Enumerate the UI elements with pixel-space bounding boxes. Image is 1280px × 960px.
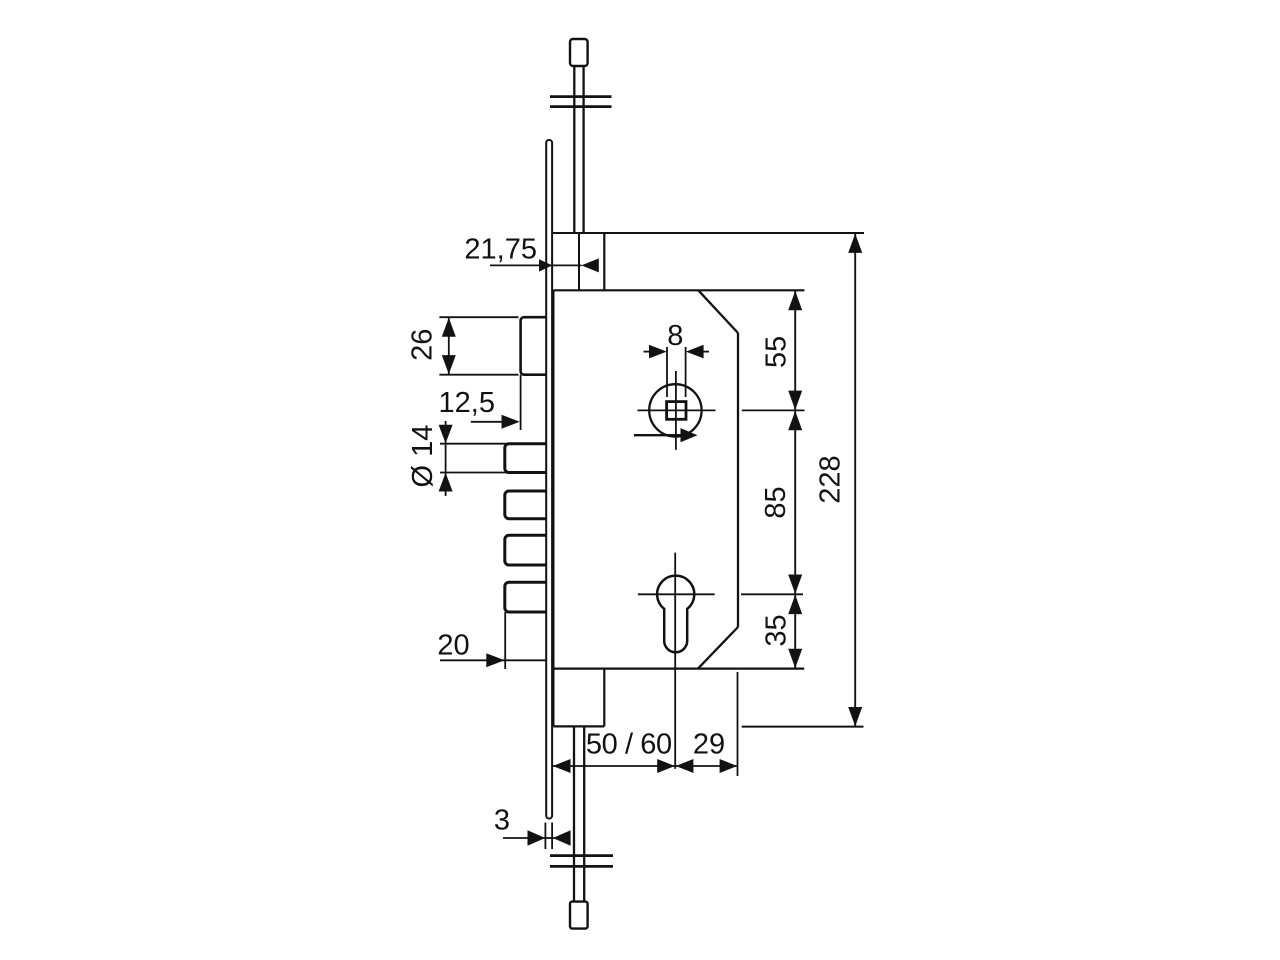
arrowhead 85 top bbox=[788, 411, 802, 430]
arrowhead 55 bottom bbox=[788, 391, 802, 410]
arrowhead 3 right bbox=[553, 830, 571, 845]
follower horizontal centerline bbox=[638, 409, 716, 411]
dim d14 extension lines bbox=[440, 443, 545, 445]
dim 12,5 extension line bbox=[520, 375, 522, 430]
svg-text:228: 228 bbox=[815, 455, 847, 503]
bolt stump E bbox=[505, 582, 547, 612]
arrowhead 35 bottom bbox=[788, 649, 802, 668]
dim 3 leader line bbox=[503, 837, 528, 839]
lock body right edge bbox=[737, 333, 739, 627]
arrowhead 26 bottom bbox=[442, 355, 456, 374]
top flange top edge / 228 top extension line bbox=[553, 232, 864, 234]
arrowhead 21,75 left bbox=[539, 259, 552, 271]
top spindle cap bbox=[570, 39, 588, 66]
arrowhead 35 top bbox=[788, 595, 802, 614]
dim 8 extension lines bbox=[666, 347, 668, 397]
arrowhead 8 left bbox=[649, 345, 667, 359]
follower centerline right extension bbox=[742, 409, 805, 411]
svg-text:Ø 14: Ø 14 bbox=[407, 425, 439, 488]
arrowhead 20 bbox=[486, 653, 504, 667]
lock body top bevel bbox=[698, 290, 738, 333]
lock body top edge / 55 extension line bbox=[553, 289, 804, 291]
dim 20 line bbox=[440, 659, 546, 661]
top flange inner vertical (21,75 reference) bbox=[578, 233, 580, 290]
arrowhead 29 right bbox=[720, 759, 738, 773]
bolt stump D bbox=[505, 535, 547, 565]
lock body left edge bbox=[552, 290, 554, 668]
follower circle bbox=[649, 384, 701, 436]
dim 20 extension line bbox=[504, 612, 506, 669]
keyhole euro cylinder profile bbox=[657, 576, 694, 653]
dim 8 leader lines bbox=[644, 351, 650, 353]
svg-text:12,5: 12,5 bbox=[439, 387, 495, 419]
handing arrow head bbox=[681, 428, 698, 442]
dim 29 right extension line bbox=[737, 672, 739, 776]
bottom guide plate bbox=[550, 854, 613, 857]
arrowhead 55 top bbox=[788, 291, 802, 310]
follower vertical centerline bbox=[675, 371, 677, 450]
228 bottom extension line bbox=[742, 726, 864, 728]
svg-text:21,75: 21,75 bbox=[464, 234, 537, 266]
dim 3 extension lines bbox=[544, 823, 546, 850]
dim 26 extension lines bbox=[439, 316, 518, 318]
arrowhead 3 left bbox=[528, 830, 546, 845]
dim 26 line bbox=[448, 317, 450, 375]
svg-text:8: 8 bbox=[667, 320, 683, 352]
arrowhead 228 bottom bbox=[848, 707, 862, 726]
handing arrow shaft bbox=[634, 434, 683, 436]
arrowhead 21,75 right bbox=[581, 258, 599, 272]
arrowhead 8 right bbox=[686, 345, 704, 359]
bolt stump A (26) bbox=[521, 317, 547, 375]
bottom flange bottom edge bbox=[553, 725, 604, 727]
dim 50/60 + 29 line bbox=[552, 765, 738, 767]
follower square spindle hole bbox=[667, 402, 686, 420]
arrowhead 50/60 right bbox=[657, 759, 675, 773]
dim 21,75 line bbox=[490, 264, 582, 266]
svg-text:85: 85 bbox=[760, 486, 792, 518]
arrowhead d14 top bbox=[439, 425, 453, 444]
top guide plate bbox=[550, 95, 612, 98]
bottom flange right edge bbox=[603, 669, 605, 727]
bottom flange left edge bbox=[552, 669, 554, 727]
lock body bottom bevel bbox=[698, 627, 738, 669]
svg-text:29: 29 bbox=[693, 729, 725, 761]
arrowhead d14 bottom bbox=[439, 473, 453, 492]
bolt stump B (d14) bbox=[505, 444, 547, 473]
svg-text:3: 3 bbox=[494, 805, 510, 837]
arrowhead 26 top bbox=[442, 318, 456, 337]
keyhole centerline right extension bbox=[741, 593, 803, 595]
top spindle rod bbox=[573, 66, 575, 233]
bottom spindle rod bbox=[573, 726, 575, 901]
arrowhead 228 top bbox=[848, 234, 862, 253]
arrowhead 29 left bbox=[676, 759, 694, 773]
dim 228 line bbox=[854, 233, 856, 727]
svg-text:20: 20 bbox=[437, 630, 469, 662]
arrowhead 12,5 bbox=[502, 415, 520, 429]
svg-text:50 / 60: 50 / 60 bbox=[586, 729, 672, 761]
keyhole horizontal centerline bbox=[638, 593, 715, 595]
svg-text:55: 55 bbox=[761, 336, 793, 368]
arrowhead 85 bottom bbox=[788, 575, 802, 594]
svg-text:26: 26 bbox=[407, 329, 439, 361]
lock body bottom edge / 35 extension line bbox=[553, 667, 804, 669]
svg-text:35: 35 bbox=[761, 614, 793, 646]
dim 12,5 line bbox=[471, 421, 502, 423]
keyhole vertical centerline bbox=[674, 553, 676, 769]
bolt stump C bbox=[505, 491, 547, 519]
arrowhead 50/60 left bbox=[553, 759, 571, 773]
dim 55/85/35 line bbox=[794, 290, 796, 668]
faceplate bbox=[546, 140, 552, 819]
bottom spindle cap bbox=[570, 902, 588, 929]
dim d14 line bbox=[445, 421, 447, 496]
top flange right edge bbox=[603, 233, 605, 290]
